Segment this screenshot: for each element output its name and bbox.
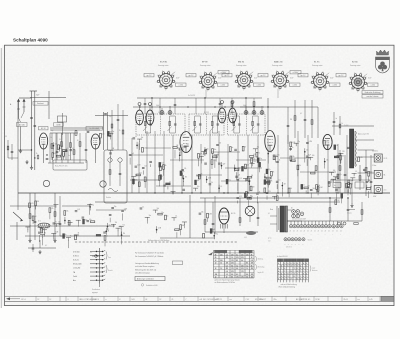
svg-text:Fi 213: Fi 213 xyxy=(244,112,249,114)
tube V6 EABC80 xyxy=(265,131,275,152)
resistor R4 xyxy=(75,131,77,136)
component cluster AF section xyxy=(282,141,352,200)
svg-text:0,25: 0,25 xyxy=(216,155,219,157)
antenna input xyxy=(10,98,32,150)
svg-text:12k: 12k xyxy=(140,173,143,175)
svg-text:6: 6 xyxy=(297,268,298,270)
component cluster output right xyxy=(333,151,373,204)
svg-text:47p: 47p xyxy=(257,147,260,149)
svg-text:10n: 10n xyxy=(141,137,144,139)
wire bus y202 xyxy=(95,201,340,203)
capacitor C31 xyxy=(59,222,62,224)
svg-text:30pF: 30pF xyxy=(36,95,40,97)
svg-text:M 510-1620: M 510-1620 xyxy=(73,264,82,266)
svg-text:6: 6 xyxy=(281,266,282,268)
capacitor C4 xyxy=(56,150,59,152)
resistor R20 xyxy=(29,214,31,219)
wire V3 stems xyxy=(138,103,152,111)
tone cap block xyxy=(244,231,256,239)
tube socket view EABC 80 xyxy=(258,61,301,99)
waveband switch contact table xyxy=(73,248,113,294)
svg-text:1,2: 1,2 xyxy=(236,265,238,267)
resistor R3 xyxy=(70,143,72,148)
voltage table side labels xyxy=(256,256,266,274)
resistor R8 xyxy=(231,102,233,107)
svg-text:Lage: Lage xyxy=(312,268,315,270)
svg-text:12: 12 xyxy=(38,299,40,301)
svg-text:0,1: 0,1 xyxy=(220,186,222,188)
svg-text:0,1: 0,1 xyxy=(300,113,302,115)
svg-text:12: 12 xyxy=(160,299,162,301)
svg-text:9: 9 xyxy=(297,266,298,268)
svg-text:EABC 80: EABC 80 xyxy=(274,61,283,64)
svg-text:75: 75 xyxy=(294,159,296,161)
svg-text:B 6 1 0 4 7 T 2 8 . 6 1: B 6 1 0 4 7 T 2 8 . 6 1 xyxy=(296,299,311,301)
wire bus y221 xyxy=(285,220,362,222)
svg-text:a a: a a xyxy=(230,299,232,301)
tube socket view EM 80 xyxy=(222,62,264,92)
svg-text:1 3 5.1: 1 3 5.1 xyxy=(21,299,26,301)
voltage tap pin row xyxy=(268,208,343,236)
svg-text:0,05: 0,05 xyxy=(244,237,247,239)
tube V8 EL95 output xyxy=(219,208,235,233)
svg-text:7: 7 xyxy=(291,273,292,275)
svg-text:12 XII: 12 XII xyxy=(316,299,321,301)
wire upper detector verticals xyxy=(287,100,318,144)
capacitor C11 xyxy=(174,103,177,105)
svg-text:8µF: 8µF xyxy=(200,154,203,156)
svg-text:12: 12 xyxy=(215,260,217,262)
svg-text:85: 85 xyxy=(236,260,238,262)
svg-text:0,1: 0,1 xyxy=(60,154,62,156)
svg-text:0,25: 0,25 xyxy=(31,203,34,205)
svg-text:1,2: 1,2 xyxy=(226,254,228,256)
svg-text:75: 75 xyxy=(55,221,57,223)
svg-text:170: 170 xyxy=(241,271,244,273)
svg-text:170: 170 xyxy=(226,263,229,265)
svg-text:EZ 80: EZ 80 xyxy=(352,62,358,64)
ground left bottom xyxy=(29,239,31,241)
right column label xyxy=(358,133,370,136)
svg-text:EL 95: EL 95 xyxy=(231,213,235,215)
svg-text:215: 215 xyxy=(231,263,234,265)
svg-text:0,8: 0,8 xyxy=(231,265,233,267)
speaker jack 3 xyxy=(373,186,386,198)
svg-text:50k: 50k xyxy=(182,148,185,150)
svg-text:12: 12 xyxy=(251,257,253,259)
svg-text:47p: 47p xyxy=(197,186,200,188)
svg-text:50µF: 50µF xyxy=(156,105,160,107)
tube socket view EF 89 xyxy=(186,62,229,99)
svg-text:0,1: 0,1 xyxy=(268,213,270,215)
svg-text:0,25: 0,25 xyxy=(239,178,242,180)
IF transformer block 2 xyxy=(189,112,224,135)
svg-text:12k: 12k xyxy=(145,166,148,168)
svg-text:9: 9 xyxy=(306,263,307,265)
svg-text:0,1: 0,1 xyxy=(175,216,177,218)
svg-text:50k: 50k xyxy=(201,211,204,213)
tube V3b ECH81 triode xyxy=(146,110,154,125)
tube V4b EF89 xyxy=(229,108,237,123)
svg-text:0,8: 0,8 xyxy=(246,274,248,276)
svg-text:7: 7 xyxy=(297,273,298,275)
component cluster volume area xyxy=(25,201,60,245)
tube V7 EL95 driver xyxy=(323,134,332,149)
svg-text:7: 7 xyxy=(306,279,307,281)
svg-text:100: 100 xyxy=(312,155,315,157)
svg-text:85: 85 xyxy=(246,263,248,265)
svg-text:50k: 50k xyxy=(219,143,222,145)
svg-text:4 5 6 . 8 T R 9 6 2 K L M 2: 4 5 6 . 8 T R 9 6 2 K L M 2 5 xyxy=(80,299,99,301)
IF transformer block 1 xyxy=(136,112,185,135)
svg-text:a 250: a 250 xyxy=(257,85,261,87)
svg-text:230: 230 xyxy=(231,254,234,256)
svg-text:170: 170 xyxy=(251,274,254,276)
svg-text:215: 215 xyxy=(226,257,229,259)
wire V4 stems xyxy=(221,101,235,109)
ratio detector box xyxy=(53,160,87,170)
svg-text:0,8: 0,8 xyxy=(226,271,228,273)
resistor R1 xyxy=(51,144,53,149)
svg-text:0,25: 0,25 xyxy=(161,163,164,165)
svg-text:230: 230 xyxy=(220,260,223,262)
svg-text:6 2 K L 2 5 B 1 7: 6 2 K L 2 5 B 1 7 xyxy=(255,299,266,301)
svg-text:47p: 47p xyxy=(54,153,57,155)
wire left low bus xyxy=(10,225,115,227)
svg-text:9: 9 xyxy=(291,271,292,273)
revision strip xyxy=(5,284,395,302)
svg-text:1,2: 1,2 xyxy=(246,268,248,270)
svg-text:12: 12 xyxy=(50,299,52,301)
wire mid horizontal links xyxy=(60,148,336,236)
svg-text:12k: 12k xyxy=(270,151,273,153)
svg-text:8µF: 8µF xyxy=(269,180,272,182)
svg-text:Tonbl.: Tonbl. xyxy=(73,276,78,278)
component cluster AF lower xyxy=(140,195,218,239)
svg-text:a 250: a 250 xyxy=(371,85,375,87)
tube V1 ECC85 triode a xyxy=(39,127,49,164)
svg-text:gn 1,2: gn 1,2 xyxy=(339,75,344,77)
svg-text:Ferritant.: Ferritant. xyxy=(37,102,44,105)
svg-text:gn 1,2: gn 1,2 xyxy=(261,75,266,77)
svg-text:100: 100 xyxy=(337,200,340,202)
service note text xyxy=(135,252,183,275)
svg-text:170: 170 xyxy=(251,263,254,265)
svg-text:10n: 10n xyxy=(214,149,217,151)
svg-text:K 25-31: K 25-31 xyxy=(73,260,79,262)
svg-text:0,8: 0,8 xyxy=(246,277,248,279)
svg-text:1k: 1k xyxy=(50,137,52,139)
svg-text:10n: 10n xyxy=(306,150,309,152)
svg-text:LS 25: LS 25 xyxy=(384,158,388,160)
lower right network xyxy=(329,180,370,230)
svg-text:25 b: 25 b xyxy=(274,299,277,301)
svg-text:0,25: 0,25 xyxy=(360,157,363,159)
svg-text:215: 215 xyxy=(251,277,254,279)
svg-text:K 49-51: K 49-51 xyxy=(73,255,79,257)
svg-text:0,1: 0,1 xyxy=(45,245,47,247)
svg-text:62: 62 xyxy=(146,299,148,301)
resistor R2 xyxy=(61,142,63,147)
svg-text:7: 7 xyxy=(297,276,298,278)
svg-text:220: 220 xyxy=(213,160,216,162)
svg-text:8µF: 8µF xyxy=(308,154,311,156)
svg-text:75: 75 xyxy=(244,146,246,148)
svg-text:7: 7 xyxy=(291,279,292,281)
svg-text:170: 170 xyxy=(231,260,234,262)
svg-text:Chassis: Chassis xyxy=(347,213,352,215)
svg-text:U 87-100: U 87-100 xyxy=(73,251,80,253)
svg-text:75: 75 xyxy=(108,229,110,231)
svg-text:85: 85 xyxy=(251,265,253,267)
svg-text:25 4.1: 25 4.1 xyxy=(344,299,348,301)
ground antenna xyxy=(31,166,33,168)
wire left top bus xyxy=(30,91,128,150)
svg-text:12: 12 xyxy=(215,268,217,270)
ground 2 xyxy=(26,160,28,162)
svg-text:4n: 4n xyxy=(336,118,338,120)
capacitor C5 xyxy=(65,149,68,151)
svg-text:220: 220 xyxy=(247,164,250,166)
border frame xyxy=(5,45,395,305)
svg-text:0,25: 0,25 xyxy=(77,209,80,211)
svg-text:0,8: 0,8 xyxy=(231,274,233,276)
page scan left edge line xyxy=(0,48,2,308)
svg-text:20p: 20p xyxy=(51,130,53,132)
svg-text:50: 50 xyxy=(77,140,79,142)
svg-text:215: 215 xyxy=(241,268,244,270)
note under rectifier socket xyxy=(362,91,383,99)
svg-text:12: 12 xyxy=(226,277,228,279)
svg-text:47p: 47p xyxy=(339,174,342,176)
choke Dr1 xyxy=(38,221,50,228)
svg-text:6,3: 6,3 xyxy=(226,265,228,267)
svg-text:75: 75 xyxy=(258,152,260,154)
svg-text:12k: 12k xyxy=(184,168,187,170)
svg-text:0,1: 0,1 xyxy=(355,171,357,173)
svg-text:47p: 47p xyxy=(297,141,300,143)
svg-text:110 125 150 220 240V: 110 125 150 220 240V xyxy=(292,219,306,221)
svg-text:0,25: 0,25 xyxy=(239,196,242,198)
svg-text:Wechselsp.: Wechselsp. xyxy=(258,267,266,269)
svg-text:gn 1,2: gn 1,2 xyxy=(225,75,230,77)
svg-text:2,5: 2,5 xyxy=(5,136,7,138)
paper scan texture xyxy=(2,45,394,306)
tube V2 ECC85 triode b xyxy=(54,123,103,163)
svg-text:12k: 12k xyxy=(238,174,241,176)
resistor R21 xyxy=(54,212,56,217)
svg-text:75: 75 xyxy=(70,235,72,237)
tube V4a EF89 pentode xyxy=(218,108,226,123)
component cluster IF section xyxy=(129,136,189,194)
svg-text:47p: 47p xyxy=(91,205,94,207)
wire V1 cluster xyxy=(48,133,84,163)
component cluster detector switch bank xyxy=(234,146,281,206)
svg-text:10n: 10n xyxy=(149,215,152,217)
svg-text:1,2: 1,2 xyxy=(226,274,228,276)
svg-text:0,8: 0,8 xyxy=(241,260,243,262)
svg-text:25p: 25p xyxy=(259,158,262,160)
Graetz logo crest xyxy=(376,50,390,73)
svg-text:Impuls 50: Impuls 50 xyxy=(258,272,264,274)
capacitor C30 xyxy=(34,220,37,222)
DIN symbol xyxy=(90,252,100,257)
svg-text:8µF: 8µF xyxy=(111,134,114,136)
svg-text:25p: 25p xyxy=(112,131,115,133)
svg-text:50k: 50k xyxy=(312,188,315,190)
svg-text:hochohm.: hochohm. xyxy=(372,151,379,153)
svg-text:220: 220 xyxy=(135,179,138,181)
svg-text:0,25: 0,25 xyxy=(326,141,329,143)
svg-text:a 250: a 250 xyxy=(179,85,183,87)
svg-text:8µF: 8µF xyxy=(131,153,134,155)
component cluster V1 neighbourhood xyxy=(36,131,115,162)
svg-text:100: 100 xyxy=(370,172,373,174)
svg-text:12k: 12k xyxy=(37,201,40,203)
svg-text:Gleichsp.: Gleichsp. xyxy=(258,259,264,261)
svg-text:a 250: a 250 xyxy=(221,85,225,87)
svg-text:12k: 12k xyxy=(122,224,125,226)
svg-text:5n: 5n xyxy=(232,147,234,149)
svg-text:2.LS: 2.LS xyxy=(384,189,387,191)
svg-text:4Ω: 4Ω xyxy=(333,228,335,230)
svg-text:5n: 5n xyxy=(167,215,169,217)
chassis dashed line xyxy=(75,241,238,243)
svg-text:8 6 1 2 4 7 B 6 1 0 4 7 T 2 8: 8 6 1 2 4 7 B 6 1 0 4 7 T 2 8 xyxy=(203,299,222,301)
svg-text:12k: 12k xyxy=(135,174,138,176)
tube socket view ECH 81 xyxy=(144,62,186,92)
svg-text:5n: 5n xyxy=(68,155,70,157)
svg-text:75: 75 xyxy=(350,180,352,182)
svg-text:b 25: b 25 xyxy=(370,299,373,301)
IF transformer block 3 xyxy=(228,112,266,135)
svg-text:von der Lötseite: von der Lötseite xyxy=(366,95,378,98)
tube V5 EF89 second xyxy=(180,132,192,153)
magic eye EM80 xyxy=(245,206,255,222)
capacitor C10 xyxy=(144,102,147,104)
svg-text:50k: 50k xyxy=(182,225,185,227)
svg-text:215: 215 xyxy=(236,257,239,259)
capacitor C12 xyxy=(219,102,222,104)
power transformer xyxy=(277,206,287,232)
wire speaker links xyxy=(332,126,374,196)
svg-text:75: 75 xyxy=(273,171,275,173)
svg-text:EL 95: EL 95 xyxy=(314,62,320,64)
boxed service label xyxy=(135,277,165,281)
svg-text:1: 1 xyxy=(306,276,307,278)
svg-text:47p: 47p xyxy=(244,167,247,169)
svg-text:Gedruckte Schaltung: Gedruckte Schaltung xyxy=(365,91,381,94)
resistor R9 xyxy=(253,102,255,107)
svg-text:0,1: 0,1 xyxy=(278,180,280,182)
svg-text:EF 89: EF 89 xyxy=(202,62,208,64)
svg-text:a 250: a 250 xyxy=(333,85,337,87)
svg-text:6,3: 6,3 xyxy=(236,274,238,276)
svg-text:47p: 47p xyxy=(268,169,271,171)
component cluster under tuner xyxy=(96,206,128,247)
svg-text:100: 100 xyxy=(206,148,209,150)
svg-text:6: 6 xyxy=(291,263,292,265)
svg-text:12: 12 xyxy=(215,277,217,279)
svg-text:Ant 240: Ant 240 xyxy=(19,124,25,127)
svg-text:K: K xyxy=(120,299,121,301)
svg-text:a IX: a IX xyxy=(200,299,203,301)
svg-text:6: 6 xyxy=(297,279,298,281)
dial lamp pin row xyxy=(268,238,313,249)
svg-text:Dr 1: Dr 1 xyxy=(38,221,41,223)
wire IF top bus xyxy=(137,97,318,131)
tube V3a ECH81 heptode xyxy=(136,110,144,125)
svg-text:1,2: 1,2 xyxy=(220,268,222,270)
svg-text:0,25: 0,25 xyxy=(277,154,280,156)
svg-text:47p: 47p xyxy=(247,176,250,178)
speaker jack 1 xyxy=(372,151,387,167)
svg-text:47p: 47p xyxy=(216,234,219,236)
volume potentiometer xyxy=(13,180,106,240)
wire output stage xyxy=(204,192,259,232)
svg-text:170: 170 xyxy=(236,277,239,279)
output transformer xyxy=(344,124,356,168)
alignment table xyxy=(277,255,318,288)
svg-text:Skalenl.: Skalenl. xyxy=(308,239,314,241)
svg-text:gn 1,2: gn 1,2 xyxy=(147,75,152,77)
svg-text:50k: 50k xyxy=(66,211,69,213)
svg-text:230: 230 xyxy=(246,254,249,256)
svg-text:215: 215 xyxy=(231,271,234,273)
capacitor C7 xyxy=(87,130,90,132)
svg-text:1: 1 xyxy=(306,266,307,268)
svg-text:EC 92: EC 92 xyxy=(41,128,46,130)
svg-text:25p: 25p xyxy=(114,206,117,208)
svg-text:Fi 211: Fi 211 xyxy=(158,112,162,114)
rectifier socket cluster xyxy=(288,208,304,222)
svg-text:1: 1 xyxy=(306,271,307,273)
svg-text:gn ws: gn ws xyxy=(268,238,272,240)
svg-text:85: 85 xyxy=(215,257,217,259)
svg-text:5n: 5n xyxy=(135,136,137,138)
svg-text:50k: 50k xyxy=(187,144,190,146)
svg-text:0,8: 0,8 xyxy=(236,268,238,270)
svg-text:7 4.1: 7 4.1 xyxy=(246,299,250,301)
svg-text:gemessen: Spannungen geg. Chas: gemessen: Spannungen geg. Chassis xyxy=(215,279,241,281)
svg-text:25: 25 xyxy=(172,299,174,301)
svg-text:1: 1 xyxy=(281,268,282,270)
svg-text:220: 220 xyxy=(268,191,271,193)
ground antenna mast xyxy=(20,149,22,151)
component cluster lower left xyxy=(63,203,95,248)
left inner section wires xyxy=(5,128,103,163)
svg-text:10n: 10n xyxy=(342,155,345,157)
svg-text:12: 12 xyxy=(215,263,217,265)
svg-text:8µF: 8µF xyxy=(197,180,200,182)
svg-text:10n: 10n xyxy=(44,232,47,234)
svg-text:L 150-280: L 150-280 xyxy=(73,268,80,270)
svg-text:0,25: 0,25 xyxy=(102,133,105,135)
component cluster AM section xyxy=(193,143,233,192)
tuner shielded box xyxy=(104,150,127,203)
ground left bottom 2 xyxy=(54,239,56,241)
svg-text:230: 230 xyxy=(241,265,244,267)
svg-text:100: 100 xyxy=(85,219,88,221)
svg-text:220: 220 xyxy=(337,175,340,177)
ground bottom tail xyxy=(39,250,41,252)
svg-text:215: 215 xyxy=(226,268,229,270)
wire bus y198 xyxy=(200,197,340,199)
svg-text:5n: 5n xyxy=(65,234,67,236)
svg-text:230: 230 xyxy=(215,274,218,276)
voltage table xyxy=(208,250,254,284)
wire main bus y193 xyxy=(18,192,390,194)
